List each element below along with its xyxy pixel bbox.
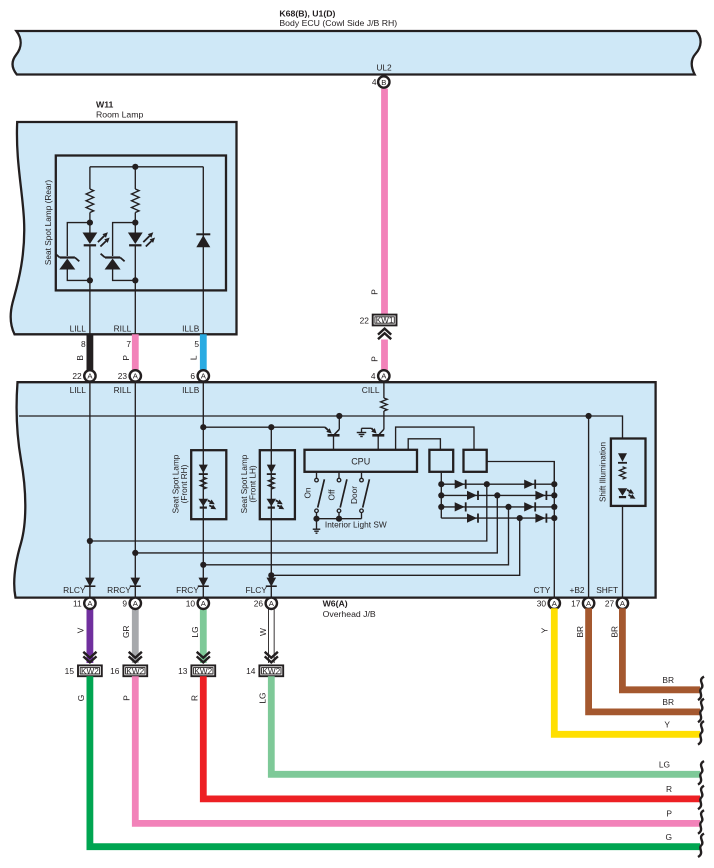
svg-text:A: A xyxy=(133,599,139,608)
connector chevron col 15 xyxy=(83,652,96,658)
wire BR brown run 2 xyxy=(622,608,700,690)
svg-text:26: 26 xyxy=(254,598,264,608)
node matrix right row 4 xyxy=(551,515,557,521)
node junction sw bus 2 xyxy=(336,516,342,522)
svg-text:A: A xyxy=(381,372,387,381)
node junction RLCY xyxy=(87,538,93,544)
diode D3a xyxy=(455,502,465,511)
wire SHFT column xyxy=(622,506,624,597)
svg-text:A: A xyxy=(620,599,626,608)
svg-text:Y: Y xyxy=(664,720,670,730)
svg-text:8: 8 xyxy=(81,339,86,349)
wire LILL branch upper xyxy=(89,167,91,189)
pin arrow FRCY xyxy=(199,578,209,587)
connector pin 4 circle B xyxy=(378,76,389,87)
wire drop row4 to FLCY xyxy=(271,518,519,575)
node junction LILL cathode xyxy=(87,277,93,283)
wire P pink run xyxy=(135,676,700,823)
node matrix right row 3 xyxy=(551,504,557,510)
svg-text:5: 5 xyxy=(194,339,199,349)
svg-text:CPU: CPU xyxy=(351,457,370,467)
svg-text:A: A xyxy=(87,599,93,608)
wire CILL upper xyxy=(383,382,385,398)
node matrix right row 2 xyxy=(551,492,557,498)
node matrix right row 1 xyxy=(551,481,557,487)
torn end LG xyxy=(698,761,704,785)
wire matrix row 4 xyxy=(441,517,554,519)
torn end BR 1 xyxy=(698,699,704,723)
svg-text:UL2: UL2 xyxy=(376,63,392,73)
svg-text:LILL: LILL xyxy=(70,324,87,334)
node junction FLCY tap xyxy=(268,424,274,430)
wire BR brown run 1 xyxy=(589,608,700,712)
ground interior sw base xyxy=(361,428,363,432)
wire +B2 rail xyxy=(19,416,623,439)
diode front RH xyxy=(199,465,208,474)
wire matrix left vertical xyxy=(440,484,442,518)
wire V violet stub xyxy=(87,608,94,663)
svg-text:W6(A): W6(A) xyxy=(323,599,348,609)
connector pin 26 circle A xyxy=(266,598,277,609)
switch On lower contact xyxy=(315,509,319,513)
svg-text:KW2: KW2 xyxy=(194,667,212,676)
node matrix left row 1 xyxy=(438,481,444,487)
svg-text:A: A xyxy=(87,372,93,381)
svg-text:RLCY: RLCY xyxy=(63,585,86,595)
svg-text:ILLB: ILLB xyxy=(182,324,200,334)
LED left seat spot lamp xyxy=(83,233,98,245)
svg-text:LG: LG xyxy=(659,760,670,770)
lamp box Front LH xyxy=(260,450,295,519)
switch Door blade xyxy=(363,479,370,507)
svg-text:P: P xyxy=(666,809,672,819)
connector pin 11 circle A xyxy=(84,598,95,609)
node junction LILL anode xyxy=(87,220,93,226)
diode D1b xyxy=(524,480,534,489)
switch Off stub xyxy=(338,472,340,479)
switch Door upper contact xyxy=(360,478,364,482)
svg-text:FLCY: FLCY xyxy=(245,585,267,595)
svg-text:LG: LG xyxy=(190,626,200,637)
wire P pink stub xyxy=(132,334,139,370)
wire L blue stub xyxy=(200,334,207,370)
svg-text:G: G xyxy=(76,695,86,702)
torn end Y xyxy=(698,721,704,745)
svg-text:A: A xyxy=(269,599,275,608)
svg-text:Room Lamp: Room Lamp xyxy=(96,110,143,120)
svg-text:A: A xyxy=(133,372,139,381)
connector pin 4 circle A xyxy=(378,370,389,381)
component W11 Room Lamp box xyxy=(11,122,237,334)
svg-text:4: 4 xyxy=(371,371,376,381)
connector pin 10 circle A xyxy=(198,598,209,609)
resistor CILL xyxy=(381,398,388,411)
svg-text:CTY: CTY xyxy=(534,585,551,595)
wire RILL lower xyxy=(134,246,136,334)
svg-text:(Front RH): (Front RH) xyxy=(180,464,189,503)
wire P pink KW1 to 4A xyxy=(381,340,388,371)
connector pin 23 circle A xyxy=(130,370,141,381)
svg-text:Off: Off xyxy=(326,489,336,501)
connector pin 27 circle A xyxy=(617,598,628,609)
resistor LILL xyxy=(86,189,94,213)
svg-text:P: P xyxy=(370,289,380,295)
wire GR gray stub xyxy=(132,608,139,663)
svg-text:BR: BR xyxy=(575,626,585,638)
wire matrix row 1 xyxy=(441,483,554,485)
svg-text:9: 9 xyxy=(122,598,127,608)
svg-text:Y: Y xyxy=(539,627,549,633)
diode ILLB xyxy=(196,233,210,235)
wire LG lightgreen run xyxy=(271,676,700,774)
svg-text:V: V xyxy=(75,627,85,633)
svg-text:13: 13 xyxy=(178,666,188,676)
svg-text:22: 22 xyxy=(360,316,370,326)
switch Off blade xyxy=(340,479,347,507)
node junction rail +B2 xyxy=(586,413,592,419)
svg-text:ILLB: ILLB xyxy=(182,385,200,395)
wire matrix row 2 xyxy=(441,494,554,496)
svg-text:11: 11 xyxy=(73,598,82,608)
wire ILLB feed xyxy=(203,426,325,428)
wire RILL branch upper xyxy=(134,167,136,189)
svg-text:FRCY: FRCY xyxy=(176,585,199,595)
svg-text:R: R xyxy=(666,784,672,794)
diode D3b xyxy=(524,502,534,511)
svg-text:22: 22 xyxy=(72,371,82,381)
connector chevron col 16 xyxy=(129,652,142,658)
transistor Q2 xyxy=(362,427,372,429)
svg-text:RRCY: RRCY xyxy=(107,585,131,595)
svg-text:A: A xyxy=(552,599,558,608)
wire drop row1 to RLCY xyxy=(90,484,487,541)
node matrix mid row 4 xyxy=(517,515,523,521)
switch On upper contact xyxy=(315,478,319,482)
connector chevron col 13 xyxy=(197,652,210,658)
wire driver box2 to matrix xyxy=(487,462,555,485)
svg-text:SHFT: SHFT xyxy=(596,585,618,595)
wire zener bypass right xyxy=(113,223,136,281)
svg-text:Interior Light SW: Interior Light SW xyxy=(325,520,387,530)
svg-text:CILL: CILL xyxy=(362,385,380,395)
ground interior light sw xyxy=(316,519,318,530)
svg-text:L: L xyxy=(189,355,199,360)
node junction rail T1 xyxy=(336,413,342,419)
svg-text:30: 30 xyxy=(537,598,547,608)
svg-text:GR: GR xyxy=(121,625,131,638)
wire RRCY column xyxy=(134,382,136,596)
svg-text:Door: Door xyxy=(349,486,359,504)
torn end P xyxy=(698,810,704,834)
svg-text:(Front LH): (Front LH) xyxy=(249,465,258,503)
LED right seat spot lamp xyxy=(128,233,143,245)
svg-text:17: 17 xyxy=(571,598,581,608)
svg-text:KW2: KW2 xyxy=(81,667,99,676)
wire CTY column xyxy=(553,518,555,596)
svg-text:P: P xyxy=(121,355,131,361)
wire LILL mid xyxy=(89,213,91,233)
wire G green run xyxy=(90,676,700,847)
wire zener bypass left xyxy=(67,223,90,281)
connector pin 17 circle A xyxy=(583,598,594,609)
wire LG green stub xyxy=(200,608,207,663)
node junction FLCY xyxy=(268,572,274,578)
switch Off upper contact xyxy=(337,478,341,482)
svg-text:G: G xyxy=(665,832,672,842)
resistor shift xyxy=(620,467,626,479)
switch Off lower contact xyxy=(337,509,341,513)
node junction RILL anode xyxy=(132,220,138,226)
svg-text:BR: BR xyxy=(609,626,619,638)
wire CILL to T2 xyxy=(383,411,385,429)
wire RILL mid xyxy=(134,213,136,233)
LED front RH xyxy=(199,499,209,507)
zener diode right xyxy=(105,256,120,258)
svg-text:Overhead J/B: Overhead J/B xyxy=(323,609,376,619)
svg-text:A: A xyxy=(201,599,207,608)
IC CPU box xyxy=(305,450,418,472)
switch Door lower wire xyxy=(361,513,363,519)
diode D2b xyxy=(535,491,545,500)
svg-text:B: B xyxy=(381,78,386,87)
pin arrow RLCY xyxy=(85,578,95,587)
driver box 2 xyxy=(464,450,487,472)
wire driver box1 to matrix xyxy=(440,472,442,484)
diode D2a xyxy=(467,491,477,500)
diode D4a xyxy=(467,514,477,523)
wire switch bus xyxy=(317,518,362,520)
svg-text:P: P xyxy=(370,356,380,362)
torn end R xyxy=(698,786,704,810)
svg-text:10: 10 xyxy=(186,598,196,608)
resistor front RH xyxy=(200,477,206,489)
svg-text:BR: BR xyxy=(662,675,674,685)
svg-text:B: B xyxy=(75,355,85,361)
svg-text:15: 15 xyxy=(65,666,75,676)
node matrix mid row 3 xyxy=(505,504,511,510)
wire matrix right vertical xyxy=(553,462,555,519)
svg-text:RILL: RILL xyxy=(114,385,132,395)
svg-text:27: 27 xyxy=(605,598,615,608)
zener diode left xyxy=(60,256,75,258)
wire FRCY column xyxy=(202,382,204,596)
svg-text:P: P xyxy=(121,695,131,701)
wire R red run xyxy=(203,676,700,799)
connector chevron col 14 xyxy=(265,652,278,658)
svg-text:A: A xyxy=(201,372,207,381)
svg-text:W11: W11 xyxy=(96,99,114,109)
torn end BR 2 xyxy=(698,677,704,701)
node junction FRCY xyxy=(200,562,206,568)
resistor front LH xyxy=(268,477,274,489)
transistor Q1 xyxy=(338,416,340,429)
svg-text:16: 16 xyxy=(110,666,120,676)
driver box 1 xyxy=(429,450,453,472)
switch On blade xyxy=(318,479,325,507)
svg-text:Body ECU (Cowl Side J/B RH): Body ECU (Cowl Side J/B RH) xyxy=(279,18,397,28)
connector pin 30 circle A xyxy=(549,598,560,609)
wire drop row2 to RRCY xyxy=(135,495,497,553)
svg-text:BR: BR xyxy=(662,697,674,707)
svg-text:Seat Spot Lamp (Rear): Seat Spot Lamp (Rear) xyxy=(43,180,53,266)
svg-text:A: A xyxy=(586,599,592,608)
resistor RILL xyxy=(132,189,140,213)
svg-text:+B2: +B2 xyxy=(569,585,584,595)
svg-text:RILL: RILL xyxy=(114,324,132,334)
wire drop row3 to FRCY xyxy=(203,507,508,565)
switch Off lower wire xyxy=(338,513,340,519)
connector pin 9 circle A xyxy=(130,598,141,609)
wire CPU to driver box 2 xyxy=(396,427,474,450)
wire CPU to driver box 1 xyxy=(408,439,440,450)
wire W white stub xyxy=(268,608,275,663)
LED shift xyxy=(618,488,628,496)
node junction RILL cathode xyxy=(132,277,138,283)
diode D1a xyxy=(455,480,465,489)
torn end G xyxy=(698,834,704,858)
diode front LH xyxy=(267,465,276,474)
pin arrow RRCY xyxy=(131,578,141,587)
inner frame Room Lamp xyxy=(56,156,226,291)
node matrix left row 3 xyxy=(438,504,444,510)
diode D4b xyxy=(535,514,545,523)
wire RLCY column xyxy=(89,382,91,596)
pin arrow FLCY xyxy=(267,578,277,587)
switch On stub xyxy=(316,472,318,479)
connector chevron KW1 xyxy=(378,333,391,339)
switch Door stub xyxy=(361,472,363,479)
wire B black stub xyxy=(87,334,94,370)
component W6(A) Overhead J/B box xyxy=(14,382,655,597)
svg-text:Shift Illumination: Shift Illumination xyxy=(599,442,608,503)
switch Door lower contact xyxy=(360,509,364,513)
svg-text:7: 7 xyxy=(126,339,131,349)
svg-text:14: 14 xyxy=(246,666,256,676)
node junction RRCY xyxy=(132,550,138,556)
svg-text:KW2: KW2 xyxy=(126,667,144,676)
wire matrix row 3 xyxy=(441,506,554,508)
wire LILL lower xyxy=(89,246,91,334)
connector/bus K68(B) U1(D) Body ECU blue band xyxy=(13,31,701,75)
svg-text:LILL: LILL xyxy=(70,385,87,395)
svg-text:W: W xyxy=(258,628,268,636)
wire P pink UL2 to KW1 xyxy=(381,89,388,315)
node matrix mid row 1 xyxy=(484,481,490,487)
node junction sw bus 1 xyxy=(313,516,319,522)
switch On lower wire xyxy=(316,513,318,519)
lamp box Front RH xyxy=(191,450,226,519)
node matrix left row 2 xyxy=(438,492,444,498)
node matrix mid row 2 xyxy=(494,492,500,498)
LED front LH xyxy=(267,499,277,507)
connector pin 6 circle A xyxy=(198,370,209,381)
svg-text:4: 4 xyxy=(372,77,377,87)
svg-text:6: 6 xyxy=(190,371,195,381)
lamp box Shift Illumination xyxy=(611,439,646,506)
svg-text:KW2: KW2 xyxy=(262,667,280,676)
svg-text:LG: LG xyxy=(257,692,267,703)
connector pin 22 circle A xyxy=(84,370,95,381)
wire +B2 column xyxy=(588,416,590,597)
wire Y yellow run xyxy=(554,608,700,734)
wire ILLB branch xyxy=(202,167,204,334)
diode shift xyxy=(618,453,627,462)
svg-text:On: On xyxy=(303,487,313,498)
node junction ILLB xyxy=(200,424,206,430)
svg-text:KW1: KW1 xyxy=(376,316,394,325)
node junction RILL top xyxy=(132,164,138,170)
svg-text:R: R xyxy=(189,695,199,701)
wire FLCY column xyxy=(270,427,272,596)
svg-text:23: 23 xyxy=(118,371,128,381)
wire top rail W11 xyxy=(90,166,203,168)
